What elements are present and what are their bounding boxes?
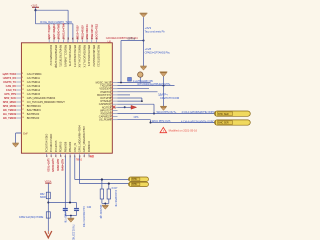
svg-text:!: !: [163, 129, 164, 133]
capacitor C39: [63, 203, 68, 216]
top pin 33: [62, 40, 64, 43]
svg-text:CAN_TX: CAN_TX: [6, 88, 16, 92]
wire row2: [118, 85, 175, 87]
svg-text:PB11=RX3У: PB11=RX3У: [80, 25, 84, 40]
wire row5: [118, 94, 131, 96]
join bar: [102, 202, 109, 204]
wire row13 MCU PPS OUT-: [118, 119, 151, 121]
svg-text:11: 11: [22, 85, 24, 87]
svg-text:BK_TBS00: BK_TBS00: [3, 116, 16, 120]
svg-text:PD2/RX5: PD2/RX5: [59, 141, 63, 152]
svg-text:PB10/TX3/SCL2У2: PB10/TX3/SCL2У2: [87, 45, 91, 67]
svg-text:UART3_RX: UART3_RX: [3, 76, 17, 80]
svg-text:CA=TMR14: CA=TMR14: [27, 88, 41, 92]
resistor R21: [101, 180, 103, 190]
right pin row 2: [112, 85, 117, 87]
left pin row 2: [16, 77, 21, 79]
svg-text:VDDA: VDDA: [45, 180, 52, 183]
wire row7: [118, 100, 142, 102]
svg-text:14: 14: [22, 97, 24, 99]
svg-text:A8: A8: [90, 155, 94, 159]
svg-text:GPTnd: GPTnd: [127, 37, 135, 40]
wire VDDA down: [47, 183, 49, 231]
ground: [12, 143, 19, 147]
wire from top loop to right pin row1: [120, 41, 122, 83]
svg-text:PA8/MCO: PA8/MCO: [87, 141, 91, 152]
svg-text:BHC: BHC: [132, 178, 137, 181]
svg-text:CAN_RX: CAN_RX: [6, 84, 17, 88]
junction caps: [69, 202, 71, 204]
svg-text:9: 9: [22, 77, 23, 79]
svg-text:CA=TMR13: CA=TMR13: [27, 84, 41, 88]
svg-text:CPаПCTIVCOM: CPаПCTIVCOM: [160, 96, 180, 100]
bottom pin 50: [88, 153, 90, 156]
ground F: [70, 216, 72, 219]
top pin 34: [67, 40, 69, 43]
svg-text:49: 49: [84, 155, 86, 157]
wire lower branch: [35, 10, 37, 24]
svg-text:ПМО2.222ПФ22: ПМО2.222ПФ22: [72, 225, 75, 240]
svg-text:CA=TMR11: CA=TMR11: [27, 76, 41, 80]
svg-text:10: 10: [22, 81, 24, 83]
svg-text:BK/TBSO0: BK/TBSO0: [27, 116, 40, 120]
ferrite FB2: [46, 192, 50, 199]
svg-text:ЕnF: ЕnF: [23, 131, 28, 135]
right pin row 6: [112, 97, 117, 99]
wire row11 MCU PPS OUT+: [118, 113, 215, 115]
svg-text:ЦАП=RХД14: ЦАП=RХД14: [52, 24, 56, 40]
wire row1: [118, 82, 151, 84]
wire col6 down: [69, 156, 71, 202]
bottom pin 49: [83, 153, 85, 156]
svg-text:15: 15: [22, 101, 24, 103]
connector CN4 pill: [215, 120, 251, 125]
svg-text:US_PLWM: US_PLWM: [99, 118, 111, 122]
svg-text:Modified on 2021-05-16: Modified on 2021-05-16: [169, 129, 198, 133]
svg-text:C40: C40: [87, 206, 92, 209]
svg-text:ЦАП=ТХ15: ЦАП=ТХ15: [46, 159, 50, 173]
svg-text:SWDIO=ПМ3: SWDIO=ПМ3: [57, 23, 61, 39]
svg-text:PB8/SCL1/CAN_RX: PB8/SCL1/CAN_RX: [78, 45, 82, 68]
top pin 38: [86, 40, 88, 43]
power flag top right: [140, 13, 148, 17]
MCU U8 body: [21, 43, 112, 153]
junction R taps: [101, 178, 103, 180]
bottom pin 46: [69, 153, 71, 156]
right pin row 7: [112, 100, 117, 102]
top pin 31: [53, 40, 55, 43]
right pin row 12: [112, 116, 117, 118]
left pin row 11: [16, 113, 21, 115]
left pin row 12: [16, 117, 21, 119]
svg-text:PB12/NSS2/TSС13: PB12/NSS2/TSС13: [97, 45, 101, 67]
svg-text:16: 16: [22, 105, 24, 107]
right pin row 5: [112, 94, 117, 96]
svg-text:CPb: CPb: [134, 116, 139, 119]
svg-text:GPIO_MDGA/RK=TB04: GPIO_MDGA/RK=TB04: [78, 125, 82, 153]
svg-text:UART3_TX: UART3_TX: [3, 80, 16, 84]
svg-text:PB1/AD9: PB1/AD9: [68, 141, 72, 152]
svg-text:CA=TMR15: CA=TMR15: [27, 92, 41, 96]
pin VSS left: [16, 132, 21, 134]
svg-text:ЦАП=ТХD4: ЦАП=ТХD4: [3, 72, 17, 76]
connector CN1 pill: [129, 177, 149, 181]
right pin row 9: [112, 106, 117, 108]
svg-text:BHC SER: BHC SER: [218, 122, 229, 125]
svg-text:0.1uF/50V/X7R ПФ2: 0.1uF/50V/X7R ПФ2: [82, 206, 85, 228]
svg-text:PB6/TX1/SCL1УТ4: PB6/TX1/SCL1УТ4: [68, 45, 72, 67]
svg-text:0.1uF/50V ПФ: 0.1uF/50V ПФ: [64, 208, 67, 223]
top pin 40: [96, 40, 98, 43]
svg-text:42: 42: [51, 155, 53, 157]
svg-text:BA/TBSO0: BA/TBSO0: [27, 112, 40, 116]
svg-text:4 CIA 4 (uРОЗУЦИУПЬ ООРСУЬ: 4 CIA 4 (uРОЗУЦИУПЬ ООРСУЬ: [182, 111, 219, 114]
svg-text:41: 41: [46, 155, 48, 157]
svg-text:BK/TBMK04: BK/TBMK04: [27, 104, 41, 108]
top pin 35: [72, 40, 74, 43]
right pin row 8: [112, 103, 117, 105]
svg-text:CPAD3=CPTAHD3 Pbс: CPAD3=CPTAHD3 Pbс: [145, 52, 171, 55]
bottom pin 42: [50, 153, 52, 156]
svg-text:PB9/SDA1/CAN_TX: PB9/SDA1/CAN_TX: [82, 45, 86, 68]
svg-text:17: 17: [22, 109, 24, 111]
svg-text:4 CIA 4 (uРОЗУЦИУПЬ ООРСУЬ: 4 CIA 4 (uРОЗУЦИУПЬ ООРСУЬ: [181, 120, 218, 123]
cap C38 box: [46, 212, 50, 218]
svg-text:PB10=TX3У: PB10=TX3У: [76, 25, 80, 39]
top pin 36: [77, 40, 79, 43]
wire row9: [118, 106, 129, 108]
wire row4: [118, 91, 158, 93]
bottom pin 45: [64, 153, 66, 156]
svg-text:+1V8: +1V8: [145, 47, 152, 51]
svg-text:Tacy cmd wrstь Pb: Tacy cmd wrstь Pb: [145, 30, 166, 33]
svg-text:ЦАП=ТХД15: ЦАП=ТХД15: [47, 24, 51, 39]
svg-text:35: 35: [73, 38, 75, 40]
svg-text:1K/0402/5% ПФ: 1K/0402/5% ПФ: [114, 190, 117, 207]
svg-text:CO_TM=/GP3_BR2D/RK=TBNVT: CO_TM=/GP3_BR2D/RK=TBNVT: [27, 100, 65, 104]
svg-text:R=Da_Rx(1)=UART0_Tx(PA: R=Da_Rx(1)=UART0_Tx(PA: [40, 20, 72, 24]
svg-text:CA1=TMR04: CA1=TMR04: [27, 72, 42, 76]
svg-text:+3V3: +3V3: [145, 26, 152, 30]
wire row8: [118, 103, 155, 105]
left pin row 10: [16, 109, 21, 111]
connector CN2 pill: [129, 182, 149, 186]
svg-text:CA=TMR12: CA=TMR12: [27, 80, 41, 84]
svg-text:OSC_IN: OSC_IN: [73, 143, 77, 153]
wire row3: [118, 88, 150, 90]
svg-text:3ДАТРч: 3ДАТРч: [158, 93, 168, 97]
connector CN3 pill: [215, 111, 251, 116]
right pin row 13: [112, 119, 117, 121]
svg-text:R/TCWR2=ЦАПРННКТ&ПТь: R/TCWR2=ЦАПРННКТ&ПТь: [138, 82, 171, 86]
svg-text:10K/0402 ЦФ: 10K/0402 ЦФ: [99, 205, 102, 219]
right pin row 4: [112, 91, 117, 93]
right pin row 10: [112, 109, 117, 111]
right pin row 11: [112, 113, 117, 115]
bottom pin 41: [45, 153, 47, 156]
svg-text:43: 43: [56, 155, 58, 157]
svg-text:C38/2 1uF(NC)/YF08E: C38/2 1uF(NC)/YF08E: [19, 216, 44, 219]
top pin 39: [91, 40, 93, 43]
svg-text:600R: 600R: [40, 196, 46, 199]
svg-text:+3V3: +3V3: [31, 4, 38, 8]
wire top loop: [36, 9, 69, 11]
ground E: [104, 203, 106, 205]
svg-text:13: 13: [22, 93, 24, 95]
testpoint circle: [138, 72, 143, 77]
svg-text:BOOT1=ПБ2: BOOT1=ПБ2: [95, 23, 99, 39]
wire vertical +3V3: [143, 17, 145, 66]
left pin row 8: [16, 101, 21, 103]
svg-text:BA_TBS09: BA_TBS09: [3, 112, 16, 116]
no-connect mark: [113, 106, 116, 109]
svg-text:USB=DM=11: USB=DM=11: [85, 24, 89, 39]
svg-text:SWCLK=ПМ4: SWCLK=ПМ4: [61, 23, 65, 40]
svg-text:GPS_PPS: GPS_PPS: [4, 92, 16, 96]
left pin row 3: [16, 81, 21, 83]
svg-text:GPIO_MDA2/RK=TB07: GPIO_MDA2/RK=TB07: [82, 125, 86, 152]
top pin 30: [48, 40, 50, 43]
svg-text:АЦП=IN35: АЦП=IN35: [56, 159, 60, 172]
svg-text:WCU PPS OUT-: WCU PPS OUT-: [152, 119, 171, 123]
power flag VDDA: [45, 180, 52, 183]
svg-text:BHC: BHC: [132, 183, 137, 186]
svg-text:PB11/RX3/SDA2У2: PB11/RX3/SDA2У2: [92, 45, 96, 67]
svg-text:PB7/RX1/SDA1УТ4: PB7/RX1/SDA1УТ4: [73, 45, 77, 68]
left pin row 1: [16, 73, 21, 75]
junction: [143, 40, 145, 42]
junction dot: [34, 9, 36, 11]
svg-text:8: 8: [22, 73, 23, 75]
junction: [47, 202, 49, 204]
svg-text:SPI2_MOSI: SPI2_MOSI: [3, 104, 17, 108]
left pin row 9: [16, 105, 21, 107]
svg-text:PC12/TX5: PC12/TX5: [54, 140, 58, 152]
svg-text:PB5/I2C1_SMBAУ5: PB5/I2C1_SMBAУ5: [63, 45, 67, 68]
svg-text:BK_TBS04: BK_TBS04: [3, 108, 16, 112]
warning triangle: [160, 127, 167, 133]
wire col7 to pill: [74, 156, 76, 179]
svg-text:SPI2_MISO: SPI2_MISO: [3, 100, 16, 104]
svg-text:19: 19: [22, 117, 24, 119]
svg-text:ЦАП=RХ25: ЦАП=RХ25: [51, 159, 55, 173]
right pin row 3: [112, 88, 117, 90]
wire col5 down: [64, 156, 66, 202]
top pin 32: [58, 40, 60, 43]
AGND arrow: [45, 231, 52, 238]
wire to ground: [16, 132, 22, 134]
power flag 3V3: [31, 4, 39, 11]
svg-text:SPI2_SCK: SPI2_SCK: [4, 96, 16, 100]
wire down to ground C: [163, 86, 165, 107]
svg-text:18: 18: [22, 113, 24, 115]
junction: [163, 85, 165, 87]
wire to caps: [48, 202, 76, 204]
svg-text:PB4/NJTRST/П2Т1: PB4/NJTRST/П2Т1: [59, 45, 63, 67]
left pin row 4: [16, 85, 21, 87]
bottom pin 48: [79, 153, 81, 156]
svg-text:PB3/SWO/ПС12ТД0: PB3/SWO/ПС12ТД0: [54, 45, 58, 69]
right pin row 1: [112, 82, 117, 84]
svg-text:BA1/TBMK9: BA1/TBMK9: [27, 108, 41, 112]
top pin 37: [81, 40, 83, 43]
svg-text:WCU PPS OUT+: WCU PPS OUT+: [157, 110, 177, 114]
wire row6: [118, 97, 142, 99]
ground A: [140, 66, 147, 70]
ground C: [160, 106, 167, 110]
resistor R22: [108, 184, 110, 189]
svg-text:PC11/RX4 SDIO: PC11/RX4 SDIO: [49, 134, 53, 153]
svg-text:PC10/TX4 SDIO: PC10/TX4 SDIO: [44, 134, 48, 152]
capacitor C40: [74, 203, 79, 216]
bottom pin 43: [55, 153, 57, 156]
blue box: [128, 78, 132, 82]
left pin row 5: [16, 89, 21, 91]
bottom pin 44: [60, 153, 62, 156]
svg-text:GPU_MDGA/RK=TMR04: GPU_MDGA/RK=TMR04: [27, 96, 56, 100]
svg-text:12: 12: [22, 89, 24, 91]
svg-text:PB0/AD8: PB0/AD8: [63, 141, 67, 152]
left pin row 7: [16, 97, 21, 99]
net flag arrow: [128, 105, 137, 109]
wire col8 to pill: [79, 156, 81, 183]
svg-text:PA15/JTDI/ПС1У2: PA15/JTDI/ПС1У2: [49, 45, 53, 66]
bottom pin 47: [74, 153, 76, 156]
ground D inverted above: [160, 72, 168, 86]
left pin row 6: [16, 93, 21, 95]
bottom join: [65, 215, 76, 217]
svg-text:USB=DP=12: USB=DP=12: [90, 24, 94, 39]
svg-text:44: 44: [60, 155, 62, 157]
svg-text:BHC SER: BHC SER: [218, 113, 229, 116]
